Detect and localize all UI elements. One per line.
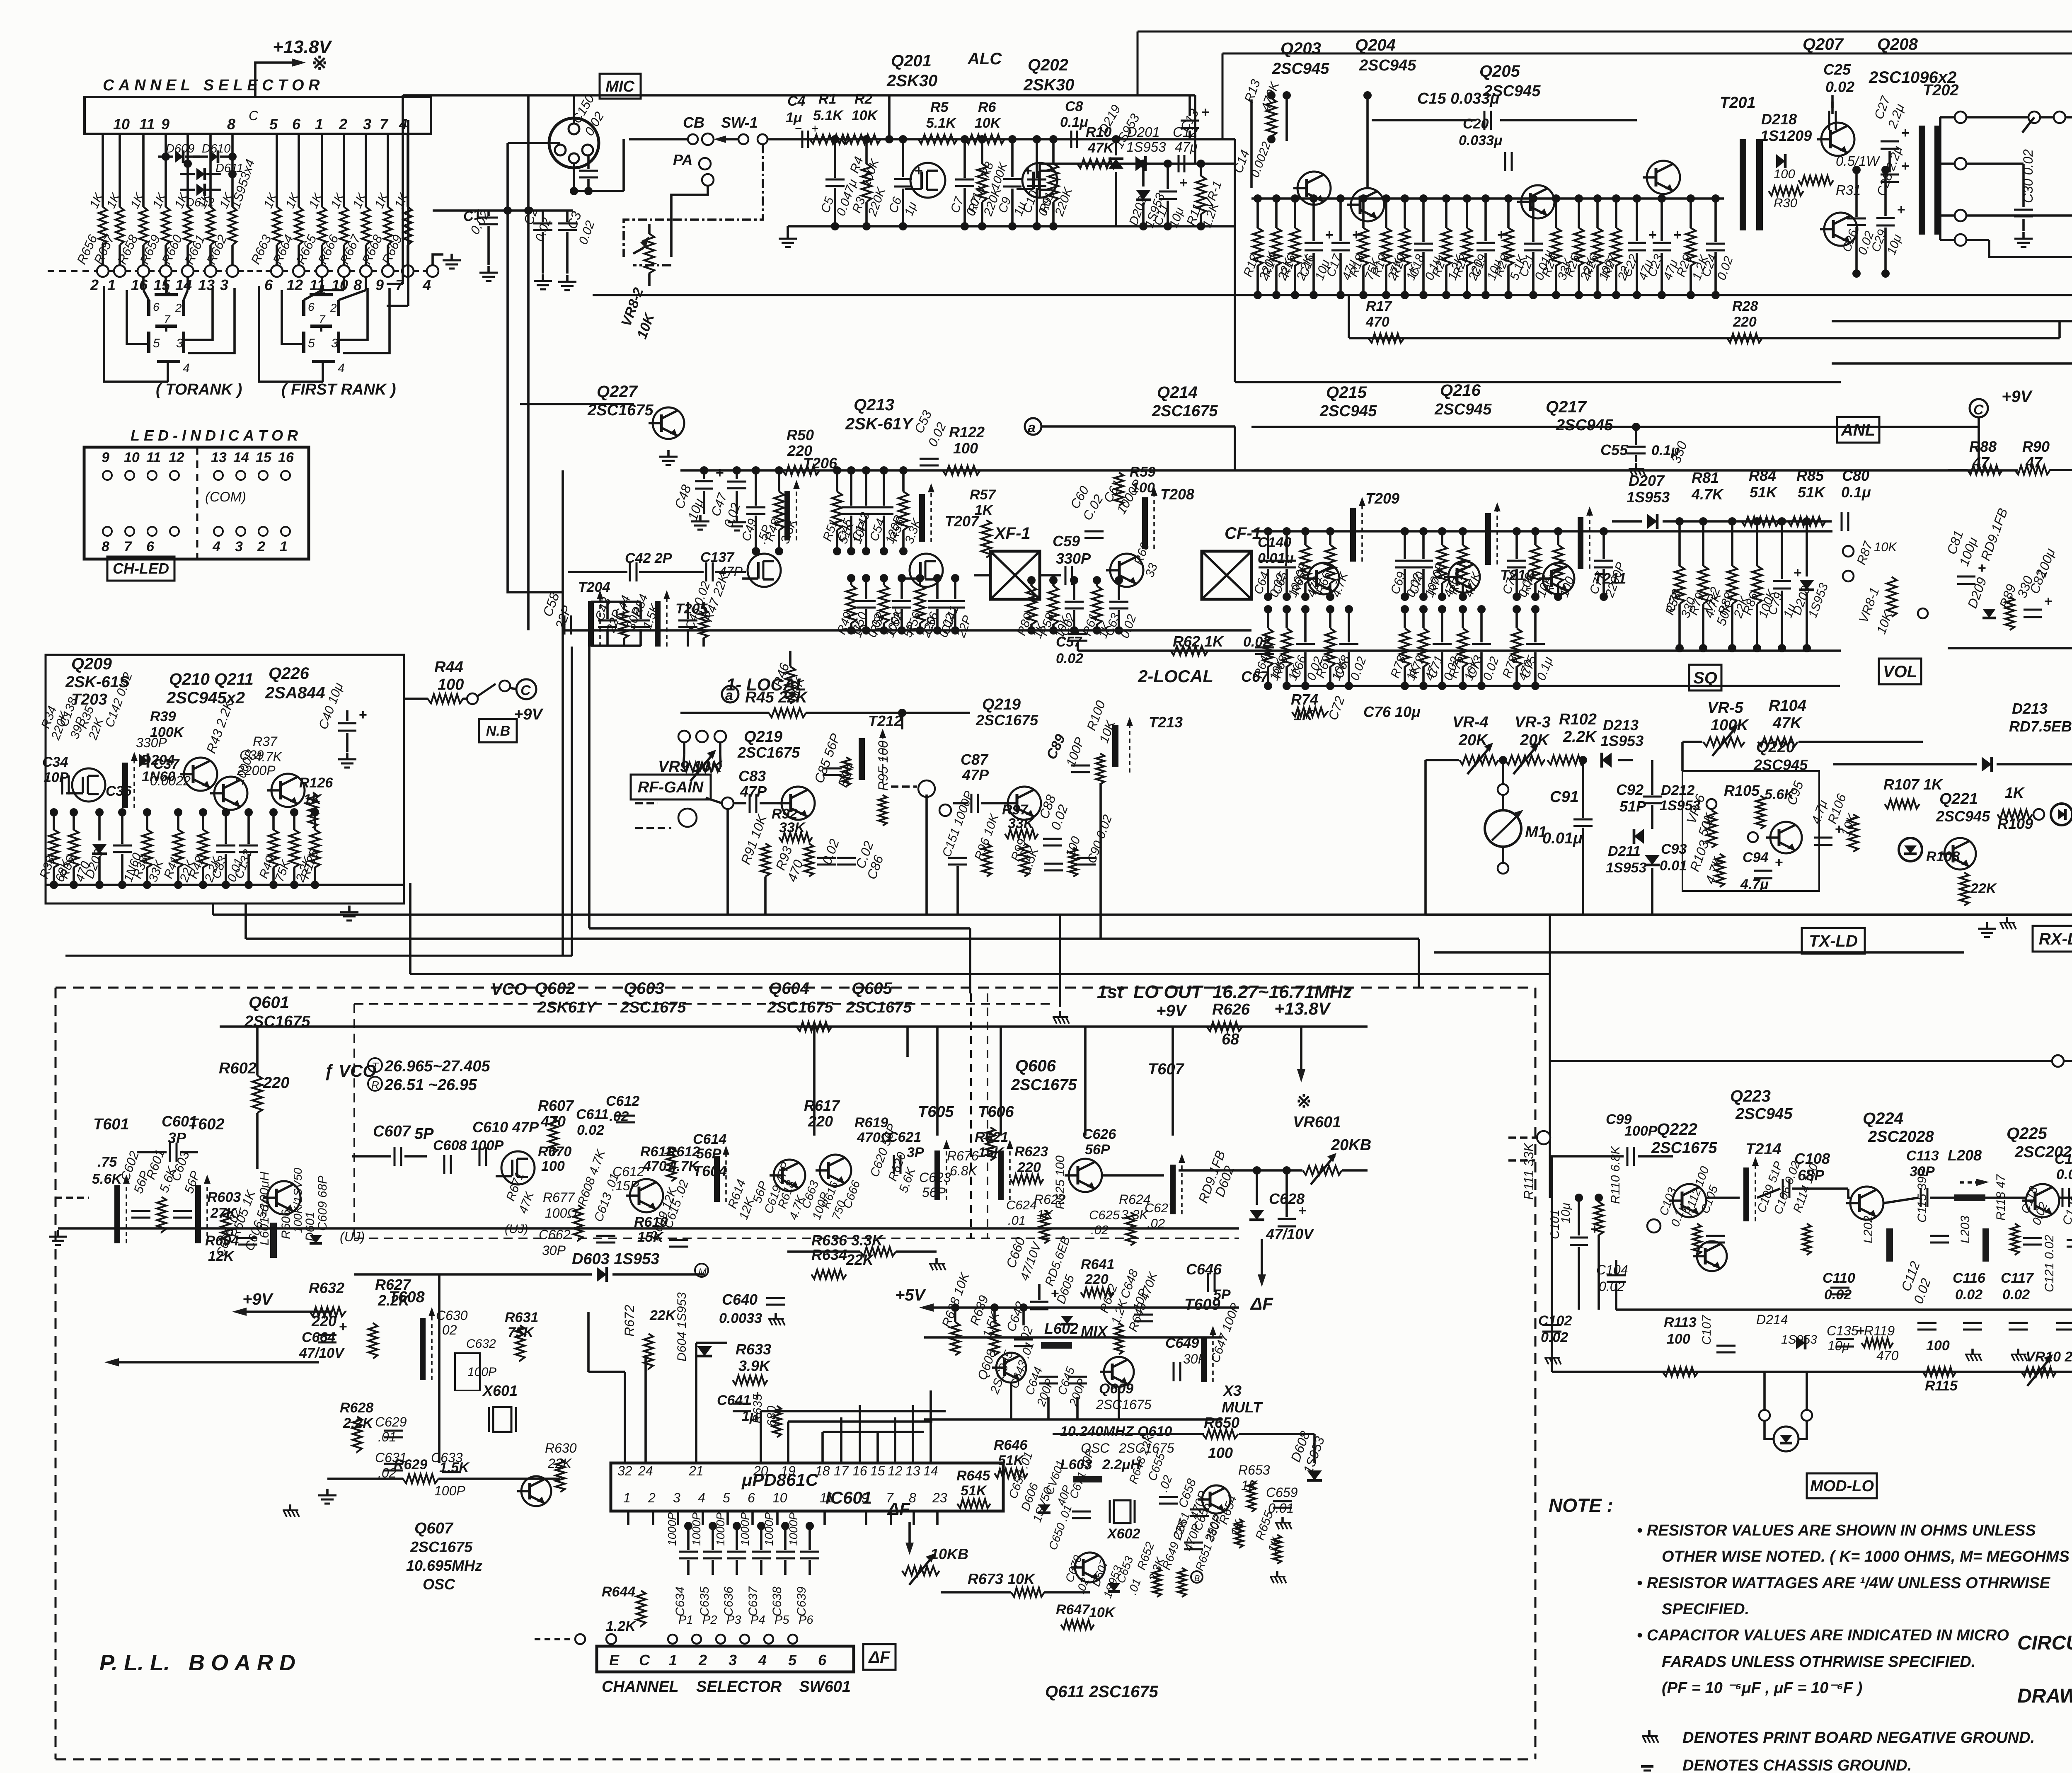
svg-text:C99: C99 xyxy=(1606,1112,1631,1127)
svg-text:C: C xyxy=(520,683,531,698)
svg-text:15P: 15P xyxy=(615,1178,639,1193)
svg-text:DRAWING NO.: DRAWING NO. xyxy=(2017,1685,2072,1707)
svg-text:D214: D214 xyxy=(1756,1312,1788,1327)
svg-text:Q205: Q205 xyxy=(1479,62,1520,80)
svg-text:P6: P6 xyxy=(799,1613,813,1627)
svg-text:3: 3 xyxy=(673,1490,680,1505)
svg-text:100: 100 xyxy=(1131,480,1155,496)
svg-text:B: B xyxy=(1194,1574,1200,1583)
svg-text:R108: R108 xyxy=(1926,849,1960,865)
svg-text:R676: R676 xyxy=(947,1148,979,1163)
svg-text:+9V: +9V xyxy=(242,1290,274,1308)
svg-text:470: 470 xyxy=(1365,314,1389,330)
svg-text:15: 15 xyxy=(870,1463,885,1478)
svg-text:220: 220 xyxy=(1733,314,1757,330)
svg-text:D213: D213 xyxy=(1603,717,1639,734)
svg-text:R603: R603 xyxy=(207,1189,241,1205)
svg-text:R105: R105 xyxy=(1724,782,1760,799)
svg-text:D612: D612 xyxy=(186,196,214,209)
svg-text:R636 3.3K: R636 3.3K xyxy=(811,1232,884,1249)
svg-text:6: 6 xyxy=(153,300,160,313)
svg-text:220: 220 xyxy=(808,1113,833,1130)
svg-text:• CAPACITOR VALUES ARE IND: • CAPACITOR VALUES ARE INDICATED IN MICR… xyxy=(1637,1627,2009,1644)
svg-text:D212: D212 xyxy=(1661,782,1694,798)
svg-text:Q202: Q202 xyxy=(1028,56,1068,74)
svg-text:6: 6 xyxy=(146,539,155,555)
svg-text:R113: R113 xyxy=(1664,1315,1697,1330)
svg-text:ANL: ANL xyxy=(1841,421,1875,439)
svg-text:100: 100 xyxy=(1926,1338,1950,1354)
svg-text:2: 2 xyxy=(339,116,347,133)
svg-text:6: 6 xyxy=(818,1652,827,1669)
svg-text:10K: 10K xyxy=(1874,540,1897,554)
svg-text:4.7K: 4.7K xyxy=(254,749,282,764)
svg-text:T606: T606 xyxy=(978,1103,1014,1121)
svg-text:8: 8 xyxy=(227,116,235,133)
svg-text:100: 100 xyxy=(953,440,978,457)
svg-text:2SC945: 2SC945 xyxy=(1359,57,1416,74)
svg-text:1: 1 xyxy=(669,1652,677,1669)
svg-text:Q601: Q601 xyxy=(249,993,289,1012)
svg-text:R5: R5 xyxy=(930,99,949,115)
svg-text:6: 6 xyxy=(748,1490,755,1505)
svg-text:4: 4 xyxy=(698,1490,705,1505)
svg-text:2SC1675: 2SC1675 xyxy=(846,999,912,1016)
svg-text:21: 21 xyxy=(688,1463,704,1478)
svg-text:+: + xyxy=(1179,175,1188,191)
svg-text:Q213: Q213 xyxy=(854,396,894,414)
svg-text:3: 3 xyxy=(235,539,243,555)
svg-text:18: 18 xyxy=(815,1463,830,1478)
svg-text:L602: L602 xyxy=(1044,1320,1078,1337)
svg-text:C639: C639 xyxy=(795,1586,808,1616)
svg-text:10K: 10K xyxy=(852,108,879,124)
svg-text:2SC1675: 2SC1675 xyxy=(767,999,833,1016)
svg-text:11: 11 xyxy=(820,1490,833,1505)
svg-text:C83: C83 xyxy=(738,768,766,785)
svg-text:10: 10 xyxy=(772,1490,787,1505)
svg-text:P1: P1 xyxy=(678,1613,693,1627)
svg-text:+: + xyxy=(1298,1203,1307,1218)
svg-text:2SC1675: 2SC1675 xyxy=(1152,402,1218,420)
svg-text:330P: 330P xyxy=(1056,550,1091,567)
svg-text:R84: R84 xyxy=(1749,467,1776,484)
svg-text:C A N N E L S E L E C T O R: C A N N E L S E L E C T O R xyxy=(103,77,320,94)
svg-text:51K: 51K xyxy=(1798,484,1826,501)
svg-text:ΔF: ΔF xyxy=(868,1648,891,1666)
svg-text:+: + xyxy=(1857,1323,1865,1339)
svg-text:R6: R6 xyxy=(978,99,997,115)
svg-text:CIRCUIT DIAGRAM TRS Chall: CIRCUIT DIAGRAM TRS Challenger MODEL600 xyxy=(2017,1632,2072,1654)
svg-text:15: 15 xyxy=(256,450,272,465)
svg-text:+: + xyxy=(1901,125,1910,141)
svg-text:9: 9 xyxy=(102,450,109,465)
svg-text:20K: 20K xyxy=(1458,731,1489,749)
svg-text:2SC945: 2SC945 xyxy=(1556,417,1613,434)
svg-text:C91: C91 xyxy=(1550,788,1579,806)
svg-text:R: R xyxy=(371,1079,379,1091)
svg-text:( TORANK ): ( TORANK ) xyxy=(156,381,242,398)
svg-text:C659: C659 xyxy=(1266,1485,1298,1500)
svg-text:Q215: Q215 xyxy=(1326,383,1367,402)
svg-text:R45 22K: R45 22K xyxy=(745,689,808,706)
svg-text:RD7.5EB: RD7.5EB xyxy=(2009,718,2072,735)
svg-text:330P: 330P xyxy=(136,735,167,750)
svg-text:• RESISTOR WATTAGES ARE ¹/: • RESISTOR WATTAGES ARE ¹/4W UNLESS OTHR… xyxy=(1637,1574,2051,1592)
svg-text:+: + xyxy=(359,707,367,723)
svg-text:2SC1675: 2SC1675 xyxy=(1651,1139,1717,1157)
svg-text:2SC1675: 2SC1675 xyxy=(975,712,1038,729)
svg-text:2SC2028: 2SC2028 xyxy=(1868,1128,1934,1146)
svg-text:T214: T214 xyxy=(1745,1141,1782,1158)
svg-text:23: 23 xyxy=(932,1490,947,1505)
svg-text:1K: 1K xyxy=(975,502,994,518)
svg-text:5.1K: 5.1K xyxy=(926,115,957,131)
svg-text:2-LOCAL: 2-LOCAL xyxy=(1138,666,1213,686)
svg-text:PA: PA xyxy=(673,151,692,168)
svg-text:220: 220 xyxy=(1017,1160,1041,1175)
svg-text:T209: T209 xyxy=(1365,490,1399,507)
svg-text:VR601: VR601 xyxy=(1293,1114,1341,1131)
svg-text:L203: L203 xyxy=(1958,1216,1972,1243)
svg-text:R626: R626 xyxy=(1212,1001,1250,1018)
svg-text:R635: R635 xyxy=(751,1394,765,1424)
svg-text:2SC945: 2SC945 xyxy=(1735,1105,1793,1123)
svg-text:1.5K: 1.5K xyxy=(439,1460,470,1475)
svg-text:220: 220 xyxy=(263,1074,289,1092)
svg-text:R641: R641 xyxy=(1081,1257,1114,1272)
svg-text:OTHER WISE NOTED. ( K= 1000 O: OTHER WISE NOTED. ( K= 1000 OHMS, M= MEG… xyxy=(1662,1548,2072,1565)
svg-text:C55: C55 xyxy=(1600,441,1628,458)
svg-text:R107 1K: R107 1K xyxy=(1883,776,1944,793)
svg-text:1000P: 1000P xyxy=(690,1512,703,1546)
svg-text:Q603: Q603 xyxy=(624,979,664,998)
svg-text:R631: R631 xyxy=(505,1310,538,1325)
svg-text:16: 16 xyxy=(278,450,294,465)
svg-text:+: + xyxy=(716,465,724,481)
svg-text:+: + xyxy=(1901,158,1910,174)
svg-text:C87: C87 xyxy=(961,751,989,768)
svg-text:+9V: +9V xyxy=(1156,1002,1188,1020)
svg-text:T602: T602 xyxy=(189,1116,225,1133)
svg-text:Q217: Q217 xyxy=(1546,398,1587,416)
svg-text:L208: L208 xyxy=(1948,1147,1982,1164)
svg-text:2: 2 xyxy=(698,1652,707,1669)
svg-text:R30: R30 xyxy=(1774,196,1797,210)
svg-text:MULT: MULT xyxy=(1222,1399,1263,1416)
svg-text:+: + xyxy=(1978,560,1986,576)
svg-text:Q224: Q224 xyxy=(1863,1109,1903,1128)
svg-text:13: 13 xyxy=(211,450,227,465)
svg-text:※: ※ xyxy=(1296,1091,1312,1112)
svg-text:8: 8 xyxy=(102,539,109,555)
svg-text:R607: R607 xyxy=(538,1097,574,1114)
svg-text:C94: C94 xyxy=(1743,850,1768,865)
svg-text:16: 16 xyxy=(131,276,148,293)
svg-text:470: 470 xyxy=(643,1158,667,1174)
svg-text:+: + xyxy=(811,122,819,136)
svg-text:47/10V: 47/10V xyxy=(299,1345,345,1361)
svg-text:1000P: 1000P xyxy=(666,1512,678,1546)
svg-text:C102: C102 xyxy=(1538,1313,1572,1329)
svg-text:51K: 51K xyxy=(1750,484,1778,501)
svg-text:Q222: Q222 xyxy=(1657,1120,1697,1138)
svg-text:0.02: 0.02 xyxy=(577,1122,604,1138)
svg-text:VR-4: VR-4 xyxy=(1452,714,1489,731)
svg-text:R109: R109 xyxy=(1997,815,2033,832)
svg-text:100P: 100P xyxy=(467,1365,496,1379)
svg-text:20KB: 20KB xyxy=(1331,1136,1371,1154)
svg-text:T206: T206 xyxy=(803,455,838,472)
svg-text:11: 11 xyxy=(139,116,155,133)
svg-text:T605: T605 xyxy=(918,1103,954,1121)
svg-text:0.02: 0.02 xyxy=(2056,1167,2072,1182)
svg-text:μPD861C: μPD861C xyxy=(741,1470,818,1490)
svg-text:1K: 1K xyxy=(2005,784,2025,801)
svg-text:MOD-LO: MOD-LO xyxy=(1810,1477,1874,1495)
svg-text:RF-GAIN: RF-GAIN xyxy=(638,779,704,796)
svg-text:T212: T212 xyxy=(868,712,902,729)
svg-text:VCO: VCO xyxy=(491,980,527,998)
svg-text:C12: C12 xyxy=(1173,124,1198,140)
svg-text:4: 4 xyxy=(422,276,431,293)
svg-text:2: 2 xyxy=(648,1490,656,1505)
svg-text:16: 16 xyxy=(852,1463,867,1478)
svg-text:47K: 47K xyxy=(1772,715,1803,732)
svg-text:0.02: 0.02 xyxy=(1056,651,1083,666)
svg-text:1.2K: 1.2K xyxy=(606,1618,637,1634)
svg-text:51P: 51P xyxy=(1619,798,1646,815)
svg-text:(COM): (COM) xyxy=(205,489,246,504)
svg-text:T609: T609 xyxy=(1184,1296,1220,1313)
svg-text:Q605: Q605 xyxy=(852,979,893,998)
svg-text:C635: C635 xyxy=(698,1586,712,1616)
svg-text:0.02: 0.02 xyxy=(2002,1287,2030,1303)
svg-text:L601=100μH: L601=100μH xyxy=(257,1171,271,1245)
svg-text:R39: R39 xyxy=(150,709,176,724)
svg-text:R81: R81 xyxy=(1692,469,1719,486)
svg-text:Q602: Q602 xyxy=(535,979,575,998)
svg-text:C42 2P: C42 2P xyxy=(625,550,672,566)
svg-text:5: 5 xyxy=(308,337,315,350)
svg-text:100: 100 xyxy=(1208,1444,1233,1461)
svg-text:X602: X602 xyxy=(1106,1526,1140,1542)
svg-text:N.B: N.B xyxy=(486,723,511,739)
svg-text:C623: C623 xyxy=(919,1170,951,1185)
svg-text:T608: T608 xyxy=(389,1289,425,1306)
svg-text:R122: R122 xyxy=(949,424,985,441)
svg-text:R88: R88 xyxy=(1969,438,1997,455)
svg-text:ΔF: ΔF xyxy=(887,1499,910,1519)
svg-text:ΔF: ΔF xyxy=(1250,1294,1273,1313)
svg-text:T202: T202 xyxy=(1923,82,1959,99)
svg-text:D213: D213 xyxy=(2012,700,2048,717)
svg-text:100: 100 xyxy=(1667,1331,1690,1347)
svg-text:Q611 2SC1675: Q611 2SC1675 xyxy=(1045,1683,1159,1701)
svg-text:47K: 47K xyxy=(1087,140,1115,156)
svg-text:+5V: +5V xyxy=(895,1286,927,1304)
svg-text:R672: R672 xyxy=(622,1305,637,1337)
svg-text:100: 100 xyxy=(438,676,464,693)
svg-text:13: 13 xyxy=(905,1463,920,1478)
svg-text:C113: C113 xyxy=(1906,1148,1939,1164)
svg-text:T601: T601 xyxy=(93,1116,129,1133)
svg-text:(UJ): (UJ) xyxy=(340,1229,365,1244)
svg-text:C611: C611 xyxy=(576,1107,609,1122)
svg-text:C115 39P: C115 39P xyxy=(1915,1168,1929,1223)
svg-text:2SC945: 2SC945 xyxy=(1434,401,1492,418)
svg-text:C640: C640 xyxy=(722,1291,758,1308)
svg-text:47P: 47P xyxy=(740,783,767,800)
svg-text:7: 7 xyxy=(319,313,326,326)
svg-text:+9V: +9V xyxy=(514,706,543,723)
svg-text:+: + xyxy=(339,1319,347,1335)
svg-text:C612: C612 xyxy=(612,1164,644,1179)
svg-text:C15 0.033μ: C15 0.033μ xyxy=(1417,90,1499,107)
svg-text:• RESISTOR VALUES ARE SHOW: • RESISTOR VALUES ARE SHOWN IN OHMS UNLE… xyxy=(1637,1522,2036,1539)
svg-text:2SK30: 2SK30 xyxy=(886,72,937,90)
svg-text:CHANNEL SELECTOR SW601: CHANNEL SELECTOR SW601 xyxy=(602,1678,851,1695)
svg-text:2SC1675: 2SC1675 xyxy=(410,1538,473,1555)
svg-text:C34: C34 xyxy=(42,754,68,770)
svg-text:22K: 22K xyxy=(1970,881,1997,896)
svg-text:0.1μ: 0.1μ xyxy=(1841,484,1871,501)
svg-text:XF-1: XF-1 xyxy=(994,524,1031,543)
svg-text:47P: 47P xyxy=(962,766,989,783)
svg-text:C646: C646 xyxy=(1186,1261,1222,1278)
svg-text:C119: C119 xyxy=(2055,1151,2072,1167)
svg-text:7: 7 xyxy=(164,313,171,326)
svg-text:a: a xyxy=(1028,420,1036,436)
svg-text:T607: T607 xyxy=(1148,1061,1184,1078)
svg-text:DENOTES CHASSIS GROUND.: DENOTES CHASSIS GROUND. xyxy=(1682,1757,1912,1773)
svg-text:C110: C110 xyxy=(1823,1270,1855,1286)
svg-text:+: + xyxy=(1325,227,1334,243)
svg-text:T604: T604 xyxy=(693,1163,727,1180)
svg-text:Q201: Q201 xyxy=(891,52,932,70)
svg-text:0.0033: 0.0033 xyxy=(719,1310,762,1326)
svg-text:( FIRST RANK ): ( FIRST RANK ) xyxy=(281,381,396,398)
svg-text:14: 14 xyxy=(175,276,192,293)
svg-text:10P: 10P xyxy=(44,770,69,785)
svg-text:M: M xyxy=(698,1267,707,1278)
svg-text:D201: D201 xyxy=(1127,124,1160,140)
svg-text:1S953: 1S953 xyxy=(1627,489,1670,506)
svg-text:12: 12 xyxy=(169,450,184,465)
svg-text:R633: R633 xyxy=(736,1341,771,1358)
svg-text:P3: P3 xyxy=(726,1613,741,1627)
svg-text:10μ: 10μ xyxy=(1559,1203,1573,1223)
svg-text:R59: R59 xyxy=(1130,464,1155,480)
svg-text:6: 6 xyxy=(264,276,273,293)
svg-text:19: 19 xyxy=(781,1463,796,1478)
svg-text:SW-1: SW-1 xyxy=(721,114,758,131)
svg-text:Q225: Q225 xyxy=(2007,1124,2048,1143)
svg-text:470: 470 xyxy=(540,1113,566,1130)
svg-text:CF-1: CF-1 xyxy=(1225,524,1261,543)
svg-text:VOL: VOL xyxy=(1883,663,1917,681)
svg-text:30P: 30P xyxy=(542,1243,566,1258)
svg-text:R62 1K: R62 1K xyxy=(1173,633,1225,650)
svg-text:0.01μ: 0.01μ xyxy=(1258,550,1294,566)
svg-text:Q607: Q607 xyxy=(414,1520,454,1537)
svg-text:R628: R628 xyxy=(340,1400,373,1416)
svg-text:T: T xyxy=(372,1060,379,1073)
svg-text:1000P: 1000P xyxy=(714,1512,727,1546)
svg-text:C610 47P: C610 47P xyxy=(472,1119,539,1136)
svg-text:6: 6 xyxy=(292,116,301,133)
svg-text:2SC1675: 2SC1675 xyxy=(620,999,686,1016)
svg-text:C612: C612 xyxy=(606,1093,639,1109)
svg-text:TX-LD: TX-LD xyxy=(1809,932,1858,950)
svg-text:C608 100P: C608 100P xyxy=(433,1138,503,1153)
svg-text:10: 10 xyxy=(113,116,130,133)
svg-text:D207: D207 xyxy=(1629,472,1665,489)
svg-text:R90: R90 xyxy=(2022,438,2050,455)
svg-text:R74: R74 xyxy=(1291,691,1318,708)
svg-text:T201: T201 xyxy=(1720,94,1756,111)
svg-text:0.02: 0.02 xyxy=(1825,78,1854,95)
svg-text:Q604: Q604 xyxy=(769,979,809,998)
svg-text:+: + xyxy=(915,163,923,179)
svg-text:C8: C8 xyxy=(1065,99,1083,114)
svg-text:1000P: 1000P xyxy=(738,1512,751,1546)
svg-text:R119: R119 xyxy=(1864,1323,1895,1338)
svg-text:C629: C629 xyxy=(375,1415,407,1429)
svg-text:+9V: +9V xyxy=(2002,388,2033,406)
svg-text:C80: C80 xyxy=(1842,467,1869,484)
svg-text:Q221: Q221 xyxy=(1939,790,1978,808)
svg-text:Q606: Q606 xyxy=(1015,1057,1056,1075)
svg-text:−: − xyxy=(795,122,802,136)
svg-text:14: 14 xyxy=(233,450,249,465)
svg-text:R670: R670 xyxy=(538,1144,571,1160)
svg-text:2SC1675: 2SC1675 xyxy=(1011,1076,1077,1094)
svg-text:R102: R102 xyxy=(1559,711,1597,728)
svg-text:Q208: Q208 xyxy=(1877,35,1918,53)
svg-text:100P: 100P xyxy=(434,1483,465,1498)
svg-text:4: 4 xyxy=(212,539,220,555)
svg-text:R677: R677 xyxy=(543,1190,575,1205)
svg-text:C638: C638 xyxy=(770,1586,784,1616)
svg-text:3: 3 xyxy=(331,337,338,350)
svg-text:R634: R634 xyxy=(811,1246,847,1263)
svg-text:+: + xyxy=(2044,593,2053,609)
svg-text:P2: P2 xyxy=(702,1613,717,1627)
svg-text:+: + xyxy=(1024,163,1032,179)
svg-text:P5: P5 xyxy=(775,1613,789,1627)
svg-text:26.965~27.405: 26.965~27.405 xyxy=(384,1058,491,1075)
svg-text:10K: 10K xyxy=(1089,1605,1116,1620)
svg-text:+: + xyxy=(1201,104,1210,120)
svg-text:R617: R617 xyxy=(804,1097,840,1114)
svg-text:P. L. L. B O A R D: P. L. L. B O A R D xyxy=(99,1650,295,1675)
svg-text:1S953: 1S953 xyxy=(1606,860,1646,876)
svg-text:T208: T208 xyxy=(1160,486,1194,503)
svg-text:VR-3: VR-3 xyxy=(1515,714,1551,731)
svg-text:R104: R104 xyxy=(1769,697,1806,715)
svg-text:0.1μ: 0.1μ xyxy=(1060,114,1088,130)
svg-text:3: 3 xyxy=(220,276,228,293)
svg-text:1S1209: 1S1209 xyxy=(1760,127,1812,144)
svg-text:MIC: MIC xyxy=(605,78,634,95)
svg-text:C: C xyxy=(639,1652,650,1669)
svg-text:R673 10K: R673 10K xyxy=(968,1570,1036,1587)
svg-text:R632: R632 xyxy=(309,1279,344,1296)
svg-text:5: 5 xyxy=(153,337,160,350)
svg-text:T204: T204 xyxy=(578,579,610,595)
svg-text:X601: X601 xyxy=(482,1382,518,1399)
